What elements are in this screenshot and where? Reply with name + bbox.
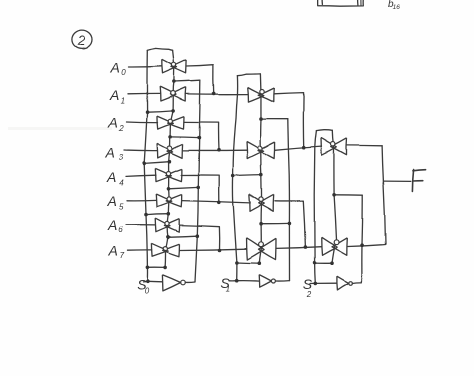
junction dot S0 rail / jog1 xyxy=(145,110,149,114)
input wire A3 xyxy=(124,149,157,152)
select label S0 xyxy=(137,277,150,296)
output wire TG10 to merge corner xyxy=(275,201,306,247)
merged wire quad A0-A3 to TG12 input xyxy=(275,147,322,151)
node label A7 xyxy=(108,243,125,261)
node label A3 xyxy=(105,145,124,163)
junction dot col2 rail / jog TG11 xyxy=(235,261,239,265)
input wire A0 xyxy=(129,65,162,68)
transmission gate TG9 (pair A2A3) xyxy=(247,142,275,159)
column1 top jog wire xyxy=(147,48,172,50)
junction dot S2 wire / rail xyxy=(314,282,318,286)
svg-text:0: 0 xyxy=(144,287,149,296)
junction dot merge A4A5 xyxy=(218,201,222,205)
column3 top jog wire xyxy=(316,129,332,132)
junction dot S0 rail / jog3 xyxy=(142,162,146,166)
output wire TG13 to output bus xyxy=(348,245,386,247)
junction dot S1bar rail / jog TG10 xyxy=(288,222,292,226)
junction dot col2 control / jog TG8 xyxy=(259,117,263,121)
junction dot col3 control / jog TG12 xyxy=(332,193,336,197)
junction dot S0bar rail / jog4 xyxy=(196,186,200,190)
junction dot control rail / jog7 xyxy=(163,266,167,270)
input wire A2 xyxy=(127,121,158,124)
svg-text:2: 2 xyxy=(118,124,124,133)
junction dot S0 rail / jog5 xyxy=(144,213,148,217)
junction dot S0bar rail / jog2 xyxy=(197,136,201,140)
transmission gate TG11 (pair A6A7) xyxy=(247,238,276,260)
transmission gate TG8 (pair A0A1) xyxy=(248,87,275,102)
column3 S2bar rail (inverter output vertical) xyxy=(352,195,362,283)
transmission gate TG12 (quad A0-A3) xyxy=(321,138,347,155)
transmission gate TG3 (input A3) xyxy=(157,143,183,158)
junction dot col2 control / jog TG10 xyxy=(259,222,263,226)
junction dot control rail / jog1 xyxy=(171,109,175,113)
transmission gate TG7 (input A7) xyxy=(151,243,179,256)
wire jog TG11 bottom to S1 rail xyxy=(237,262,259,265)
top box inner tick right xyxy=(357,0,359,5)
wire jog gate4 bottom to S0bar rail xyxy=(169,187,199,188)
merged wire pair A0A1 to TG8 input xyxy=(186,93,248,95)
wire U1 output to S0bar rail xyxy=(185,281,195,283)
merged wire pair A6A7 to TG11 input xyxy=(180,249,247,250)
output label F xyxy=(412,170,425,192)
column1 S0bar rail (inverter output vertical) xyxy=(195,80,200,282)
output merge vertical to F xyxy=(382,146,385,245)
input wire A7 xyxy=(128,249,152,251)
top cropped register box xyxy=(318,0,364,6)
svg-text:A: A xyxy=(108,114,118,130)
output wire TG4 to merge corner xyxy=(181,175,219,202)
svg-text:5: 5 xyxy=(119,202,124,211)
svg-text:A: A xyxy=(110,60,120,76)
svg-text:A: A xyxy=(107,193,117,209)
node label A1 xyxy=(109,87,125,105)
select label S1 xyxy=(220,275,230,294)
wire jog gate6 bottom to S0bar rail xyxy=(168,236,197,237)
transmission gate TG4 (input A4) xyxy=(155,168,182,181)
wire to output F xyxy=(383,180,410,182)
junction dot col2 control / jog TG9 xyxy=(260,173,264,177)
svg-text:0: 0 xyxy=(121,68,126,77)
wire jog gate0 bottom to S0bar rail xyxy=(174,80,200,81)
select label S2 xyxy=(303,276,313,299)
transmission gate TG13 (quad A4-A7) xyxy=(321,237,347,255)
wire U2 output to S1bar rail xyxy=(275,280,289,282)
transmission gate TG6 (input A6) xyxy=(155,218,179,232)
junction dot col3 rail / jog TG13 xyxy=(313,261,317,265)
wire jog gate1 bottom to S0 rail xyxy=(147,111,173,112)
junction dot col3 control / jog TG13 xyxy=(330,261,334,265)
junction dot S0 wire / rail xyxy=(146,280,150,284)
svg-text:A: A xyxy=(107,217,117,233)
node label A0 xyxy=(110,60,127,77)
wire jog gate3 bottom to S0 rail xyxy=(144,162,169,164)
svg-text:1: 1 xyxy=(121,96,125,105)
svg-text:7: 7 xyxy=(120,251,125,260)
circled problem number 2 xyxy=(71,30,92,49)
svg-text:6: 6 xyxy=(118,225,123,234)
svg-text:1: 1 xyxy=(226,285,230,294)
column2 S1 rail (left vertical) xyxy=(233,75,238,281)
column1 control rail through gate centers xyxy=(165,50,174,267)
junction dot merge B0B1 xyxy=(302,146,306,150)
output wire TG0 to merge corner xyxy=(187,65,214,94)
junction dot S1 wire / rail xyxy=(235,279,239,283)
svg-text:A: A xyxy=(106,169,116,185)
output wire TG12 to output bus xyxy=(347,144,382,146)
junction dot merge B2B3 xyxy=(304,245,308,249)
top box right edge double stroke xyxy=(360,0,362,5)
svg-text:4: 4 xyxy=(119,179,124,188)
node label A5 xyxy=(107,193,125,211)
junction dot control rail / jog3 xyxy=(168,160,172,164)
inverter U1 (generates S0bar) xyxy=(162,275,185,291)
wire jog TG10 bottom to S1bar rail xyxy=(261,222,289,224)
input wire A6 xyxy=(126,224,155,226)
transmission gate TG5 (input A5) xyxy=(156,194,181,207)
junction dot S0 rail / jog7 xyxy=(146,266,150,270)
junction dot merge A0A1 xyxy=(212,92,216,96)
select wire S0 to inverter U1 input xyxy=(143,280,162,283)
junction dot S0bar rail / jog6 xyxy=(196,234,200,238)
transmission gate TG2 (input A2) xyxy=(157,116,184,129)
junction dot merge A6A7 xyxy=(218,248,222,252)
top box inner tick left xyxy=(321,0,323,4)
node label A4 xyxy=(106,169,124,188)
node label A2 xyxy=(108,114,125,133)
junction dot control rail below TG0 xyxy=(172,80,176,84)
svg-text:16: 16 xyxy=(393,4,401,11)
junction dot control rail / jog4 xyxy=(167,187,171,191)
inverter U3 (generates S2bar) xyxy=(337,276,353,290)
svg-text:3: 3 xyxy=(119,153,124,162)
merged wire quad A4-A7 to TG13 input xyxy=(276,247,321,249)
column3 S2 rail (left vertical) xyxy=(314,131,316,284)
svg-text:A: A xyxy=(108,243,118,259)
input wire A5 xyxy=(127,199,156,201)
column2 top jog wire xyxy=(237,73,260,75)
wire jog TG9 bottom to S1 rail xyxy=(233,174,261,177)
junction dot control rail / jog6 xyxy=(166,235,170,239)
svg-text:A: A xyxy=(109,87,119,103)
junction dot col2 control / jog TG11 xyxy=(258,261,262,265)
junction dot merge A2A3 xyxy=(217,148,221,152)
merged wire pair A2A3 to TG9 input xyxy=(183,149,247,151)
output wire TG6 to merge corner xyxy=(179,225,219,250)
output wire TG2 to merge corner xyxy=(184,122,219,149)
column1 S0 rail (left vertical) xyxy=(144,50,147,281)
transmission gate TG1 (input A1) xyxy=(160,87,186,101)
wire jog TG12 bottom to S2bar rail xyxy=(334,194,363,196)
faint paper smudge xyxy=(8,127,112,130)
merged wire pair A4A5 to TG10 input xyxy=(182,201,251,203)
ink blob TG13 output over S2bar rail xyxy=(360,243,364,247)
svg-text:2: 2 xyxy=(76,32,85,48)
inverter U2 (generates S1bar) xyxy=(259,275,275,288)
junction dot control rail / jog2 xyxy=(168,135,172,139)
svg-text:A: A xyxy=(105,145,115,161)
input wire A4 xyxy=(126,175,156,176)
transmission gate TG0 (input A0) xyxy=(162,59,187,73)
wire jog TG8 bottom to S1bar rail xyxy=(261,118,288,120)
junction dot control rail / jog5 xyxy=(167,212,171,216)
select wire S2 to inverter U3 input xyxy=(310,282,337,284)
input wire A1 xyxy=(128,93,160,95)
junction dot col2 rail / jog TG9 xyxy=(231,174,235,178)
wire jog TG13 bottom to S2 rail xyxy=(315,262,332,264)
svg-text:2: 2 xyxy=(306,290,312,299)
wire jog gate5 bottom to S0 rail xyxy=(146,213,168,216)
output wire TG8 to merge corner xyxy=(274,93,303,148)
select wire S1 to inverter U2 input xyxy=(229,280,259,282)
transmission gate TG10 (pair A4A5) xyxy=(249,194,273,211)
node label A6 xyxy=(107,217,123,234)
column2 control rail through gate centers xyxy=(259,73,261,263)
column2 S1bar rail (inverter output vertical) xyxy=(288,119,290,281)
column3 control rail through gate centers xyxy=(332,130,337,263)
wire jog gate2 bottom to S0bar rail xyxy=(170,136,199,139)
wire jog gate7 bottom to S0 rail xyxy=(147,266,165,268)
